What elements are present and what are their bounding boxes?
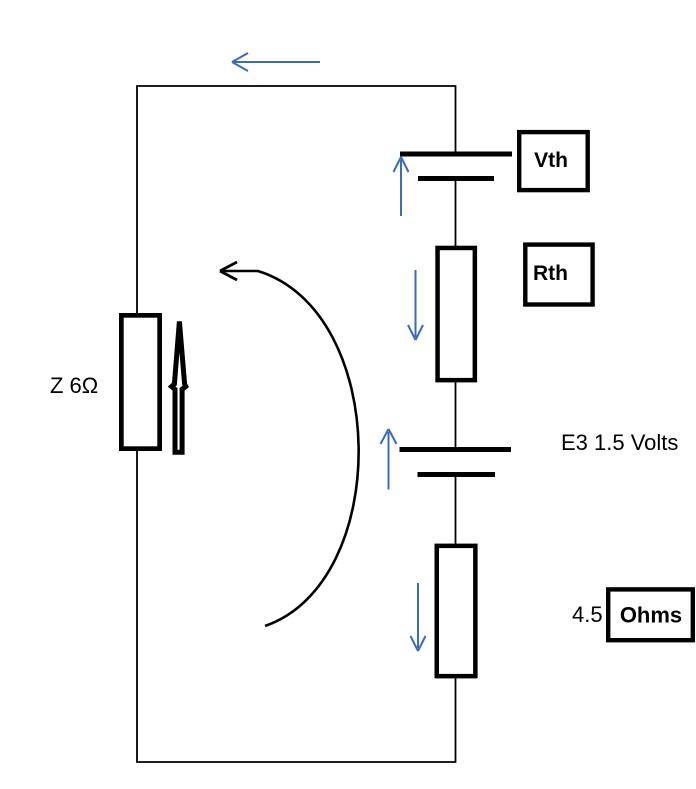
svg-text:Vth: Vth — [534, 149, 568, 172]
svg-text:E3 1.5 Volts: E3 1.5 Volts — [561, 430, 678, 455]
svg-text:4.5: 4.5 — [572, 602, 603, 627]
svg-text:Z 6Ω: Z 6Ω — [50, 373, 98, 398]
svg-text:Ohms: Ohms — [620, 603, 682, 628]
svg-text:Rth: Rth — [533, 262, 568, 285]
